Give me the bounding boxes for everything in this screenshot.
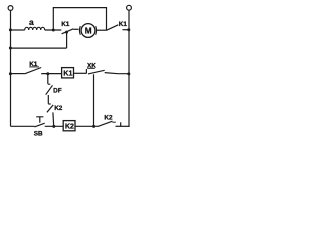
svg-text:K1: K1	[61, 21, 70, 28]
wire right rail	[128, 10, 130, 127]
pushbutton T actuator	[36, 117, 43, 123]
wire row1 to J1	[45, 29, 62, 31]
motor M circle	[81, 24, 95, 38]
node row3-left rail dot	[9, 72, 12, 75]
wire row3 after box	[74, 72, 87, 74]
svg-text:K2: K2	[54, 105, 63, 112]
wire chain mid	[48, 95, 50, 104]
node bottom chain dot	[52, 125, 55, 128]
node right rail dot row1	[127, 28, 130, 31]
resistor a (coil)	[25, 27, 45, 30]
svg-text:M: M	[85, 26, 92, 35]
wire row3 mid	[41, 73, 61, 75]
node J1 dot	[52, 29, 55, 32]
svg-text:K1: K1	[63, 71, 72, 78]
wire chain lower	[52, 112, 55, 126]
wire row1 left	[10, 29, 25, 31]
switch K1 contact 1	[62, 29, 74, 34]
wire motor right	[97, 29, 107, 31]
wire bottom mid	[45, 125, 64, 127]
svg-text:K1: K1	[119, 21, 128, 28]
node right rail dot row3	[127, 72, 130, 75]
node bottom drop dot	[92, 125, 95, 128]
pushbutton SB blade	[34, 123, 44, 127]
wire row3 right	[105, 73, 129, 74]
wire bottom right	[116, 125, 130, 127]
switch K1 contact 2 (top right)	[107, 25, 119, 31]
wire K2 tick	[112, 121, 115, 123]
wire drop to row2	[66, 32, 68, 48]
switch K2 contact 2 blade	[98, 121, 113, 126]
node row2-left rail dot	[9, 47, 12, 50]
wire K1 underline stub	[29, 66, 39, 68]
terminal right	[127, 5, 132, 10]
wire chain upper	[48, 74, 51, 84]
svg-text:DF: DF	[53, 87, 62, 94]
svg-text:SB: SB	[34, 130, 43, 137]
wire motor left	[73, 28, 78, 30]
motor brush right	[95, 26, 98, 35]
wire bottom after box	[75, 125, 98, 127]
node row1-left rail dot	[9, 28, 12, 31]
wire left rail	[10, 10, 12, 126]
wire bypass loop	[53, 8, 106, 31]
wire row2	[10, 47, 67, 49]
wire row3 left	[10, 73, 25, 75]
wire bottom left	[11, 125, 35, 127]
relay coil K2 box	[63, 121, 75, 131]
svg-text:a: a	[29, 17, 34, 27]
switch DF blade	[46, 85, 53, 94]
wire XK to bottom drop	[93, 74, 95, 126]
node dot on K1 blade	[65, 31, 68, 34]
switch K2 chain blade	[47, 105, 53, 112]
switch K2 jaw bar	[120, 122, 122, 126]
motor brush left	[78, 26, 81, 35]
svg-text:K2: K2	[65, 124, 74, 131]
switch XK bar	[85, 69, 87, 73]
wire XK underline	[87, 67, 95, 69]
switch K1 contact 3	[25, 68, 42, 74]
terminal left	[8, 6, 13, 11]
relay coil K1 box	[62, 68, 74, 78]
wire K1 stub to rail	[123, 29, 130, 31]
node row3 chain dot	[46, 72, 49, 75]
svg-text:K2: K2	[104, 115, 113, 122]
switch XK blade	[88, 70, 105, 74]
